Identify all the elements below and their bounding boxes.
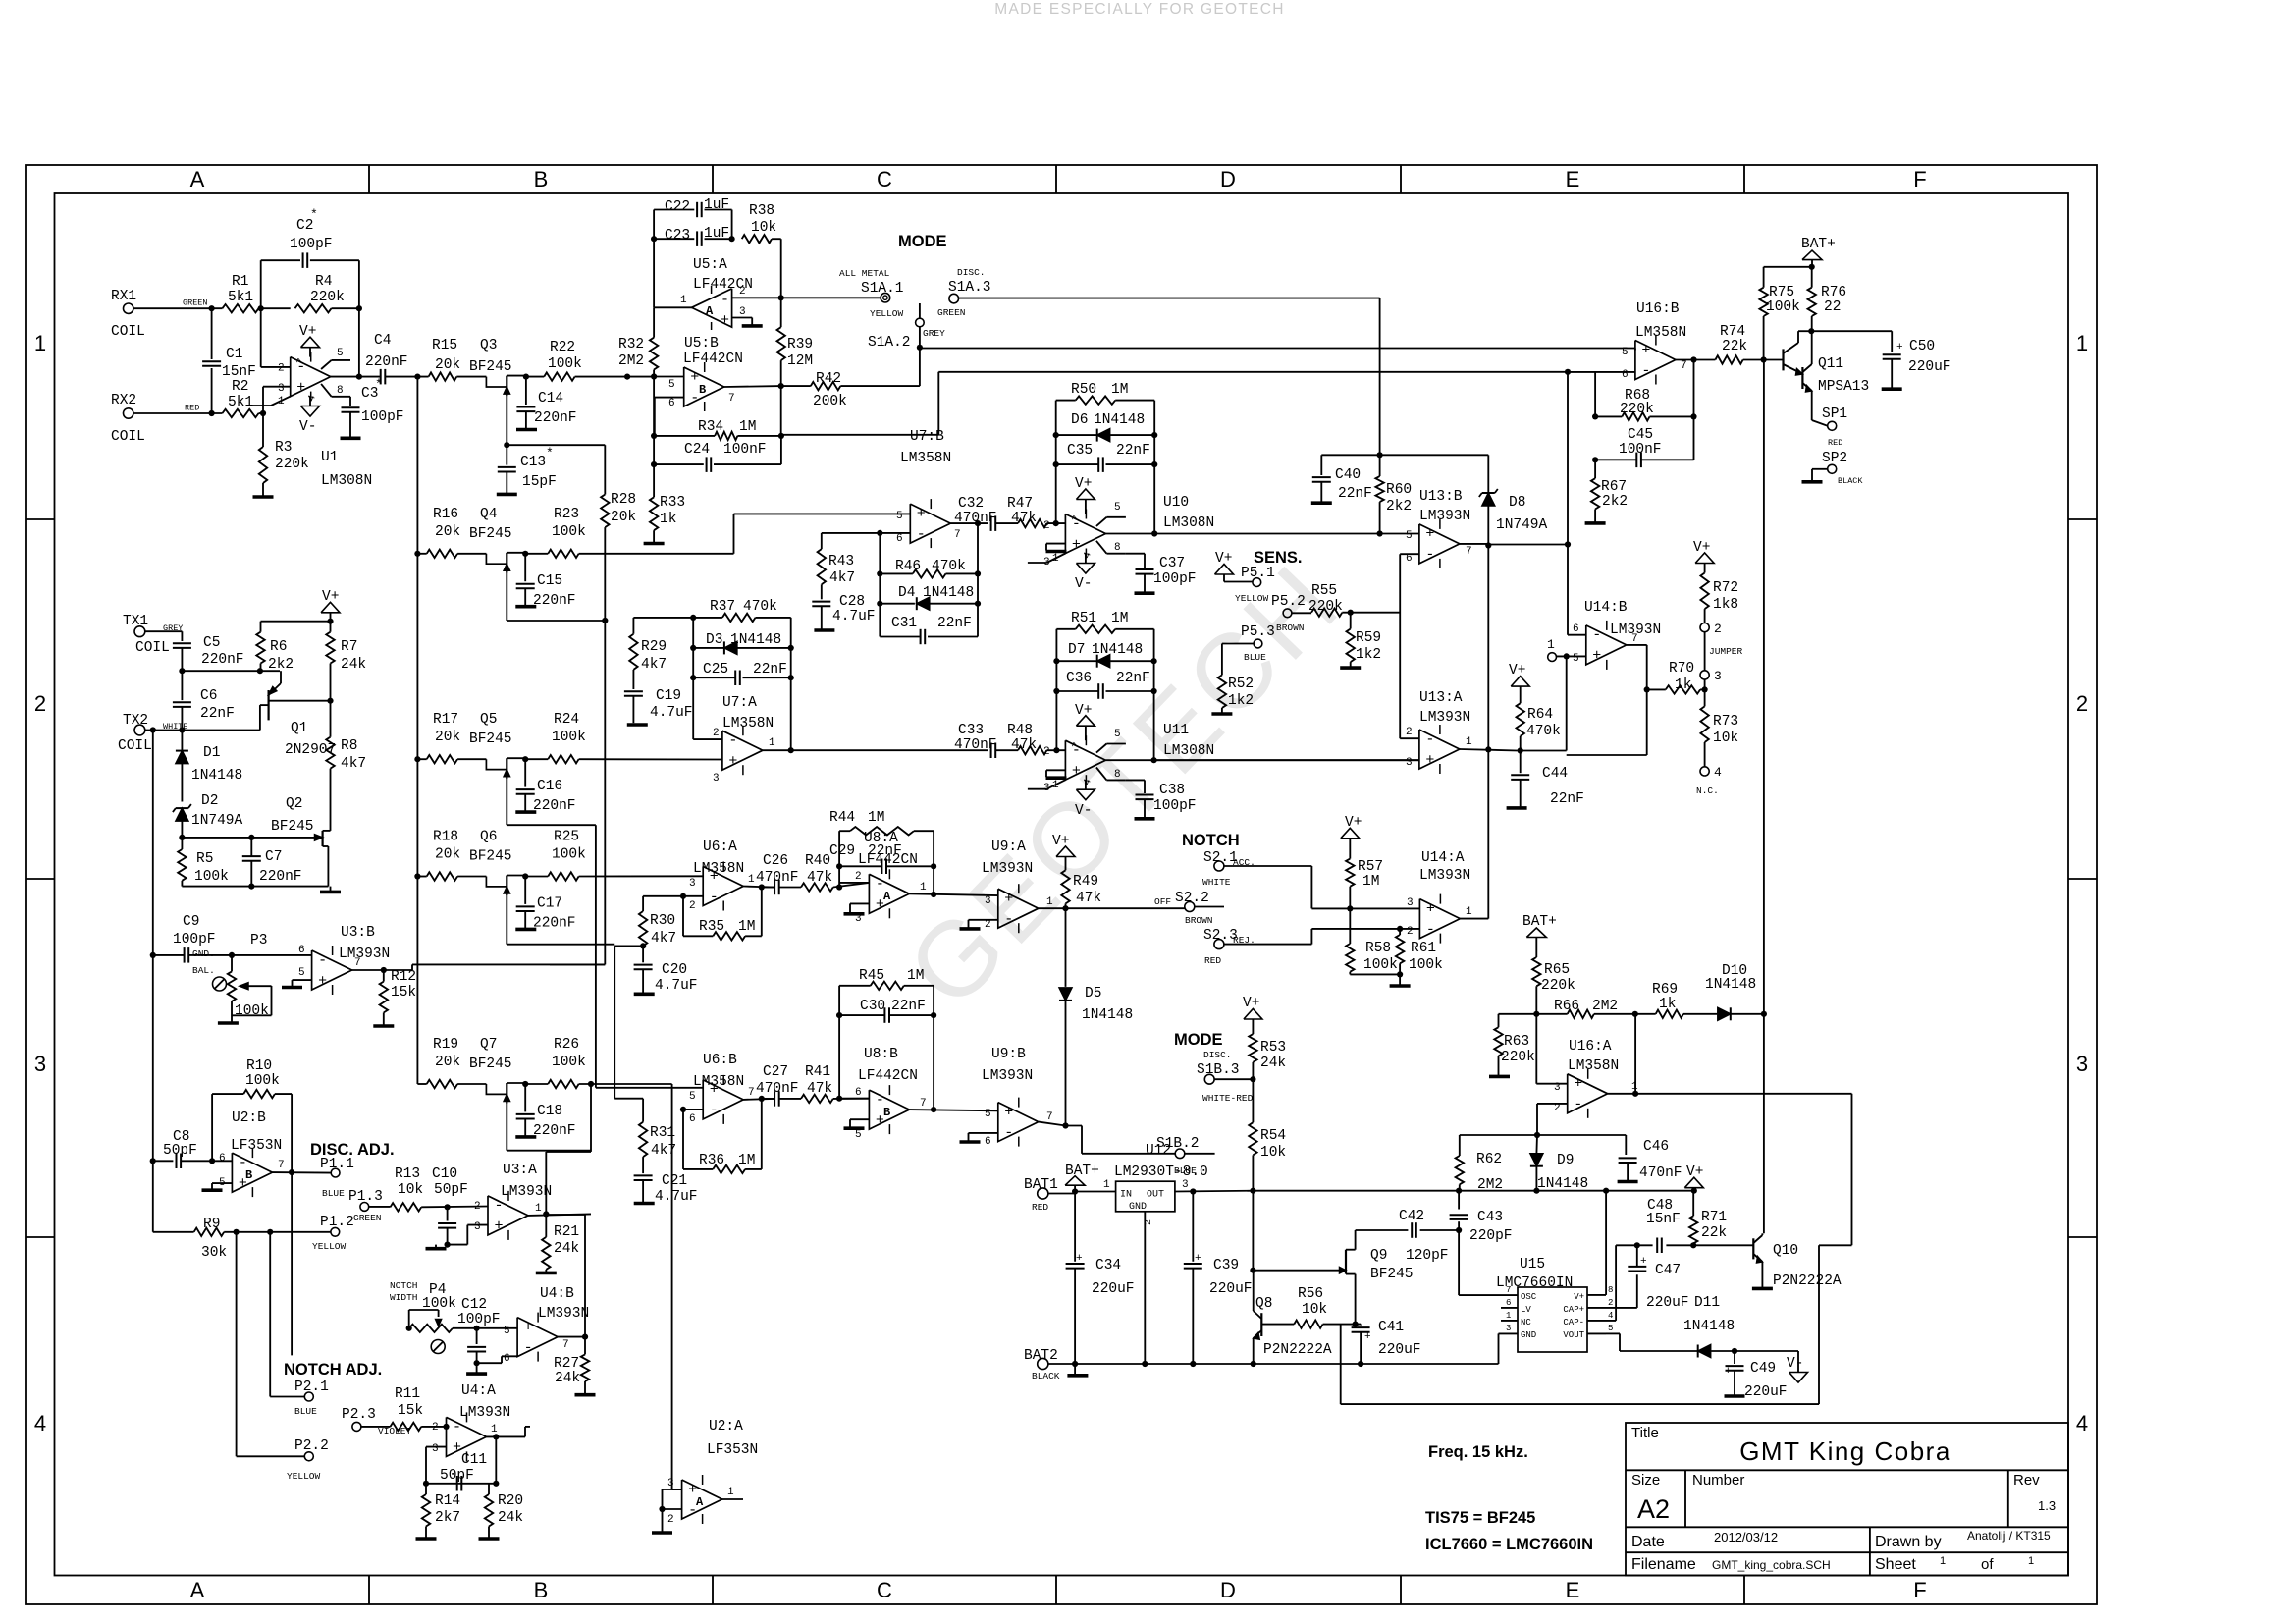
wire stage Q7 in <box>417 1083 426 1085</box>
pin7 U2:B out <box>272 1160 331 1173</box>
node C12 top <box>474 1326 480 1331</box>
wire R17 to gate <box>457 758 486 760</box>
svg-text:LV: LV <box>1521 1305 1531 1315</box>
switch S1B.2 <box>1156 1136 1200 1176</box>
svg-text:DISC.: DISC. <box>1203 1050 1232 1060</box>
svg-text:B: B <box>534 1578 549 1602</box>
node R74 R75 <box>1761 356 1767 362</box>
pin1 U16:A out <box>1608 1081 1638 1094</box>
pin3 U6:A <box>579 876 704 890</box>
pin2 U7:A <box>693 728 722 739</box>
node top rail R60 <box>1377 452 1383 458</box>
svg-text:V+: V+ <box>1075 476 1092 492</box>
regulator U12 <box>1116 1181 1175 1213</box>
wire pin3 row U14A <box>1311 907 1419 909</box>
pin1 U5:A <box>654 295 693 307</box>
svg-text:1N4148: 1N4148 <box>1537 1176 1588 1192</box>
node U4B out <box>582 1334 588 1340</box>
wire TX2 down rail <box>152 731 154 955</box>
svg-text:47k: 47k <box>1011 737 1037 753</box>
pin2 U4:A <box>432 1422 447 1434</box>
node U11 pin2 <box>1053 747 1059 753</box>
wire R22 to U5 rail <box>575 376 655 378</box>
node U2B out <box>289 1169 294 1175</box>
svg-text:C49: C49 <box>1750 1361 1776 1377</box>
svg-text:R25: R25 <box>554 830 579 845</box>
svg-text:U4:A: U4:A <box>461 1383 496 1399</box>
svg-text:100k: 100k <box>1363 957 1398 973</box>
svg-text:7: 7 <box>954 529 961 541</box>
node C24 left <box>651 461 657 467</box>
wire R25 right <box>0 0 1 1</box>
pin6 U6:B <box>683 1110 703 1125</box>
svg-text:C42: C42 <box>1399 1209 1424 1224</box>
svg-text:R20: R20 <box>498 1493 523 1509</box>
svg-text:2k2: 2k2 <box>1386 499 1412 514</box>
svg-text:YELLOW: YELLOW <box>1235 593 1269 604</box>
wire U4B tie <box>546 1214 585 1216</box>
wire P4 to C12 <box>453 1327 517 1329</box>
transistor Q11 <box>1784 331 1870 420</box>
svg-text:C21: C21 <box>662 1173 687 1189</box>
pin7 U9:B out <box>1039 1111 1175 1154</box>
svg-text:2M2: 2M2 <box>1477 1177 1503 1193</box>
svg-text:2: 2 <box>1407 926 1414 938</box>
ground C21 <box>634 1202 655 1206</box>
svg-text:R60: R60 <box>1386 482 1412 498</box>
svg-text:470nF: 470nF <box>954 737 997 753</box>
svg-text:100k: 100k <box>1766 299 1800 315</box>
svg-text:P1.1: P1.1 <box>320 1157 354 1172</box>
node C9 left <box>150 952 156 958</box>
svg-text:5: 5 <box>1114 502 1121 514</box>
power V+ R57 <box>1341 815 1362 859</box>
resistor R76 <box>1808 267 1847 316</box>
node R41 out <box>836 1096 842 1102</box>
node C41 bot <box>1358 1361 1363 1367</box>
wire U13A out row <box>1518 750 1567 752</box>
svg-text:R10: R10 <box>246 1058 272 1074</box>
ground R33 <box>644 542 665 546</box>
resistor R7 <box>326 622 366 701</box>
svg-text:+: + <box>1425 752 1434 769</box>
wire R50 right rail <box>1153 401 1155 534</box>
capacitor C42 <box>1356 1209 1460 1238</box>
svg-text:1: 1 <box>2076 331 2088 355</box>
svg-text:-: - <box>728 732 737 749</box>
op-amp U13:B <box>1419 519 1460 568</box>
svg-text:+: + <box>1364 1331 1371 1343</box>
capacitor C18 <box>516 1084 576 1139</box>
svg-text:C27: C27 <box>763 1064 788 1080</box>
pin1 stub U1 <box>252 396 291 407</box>
svg-text:R61: R61 <box>1411 941 1436 956</box>
pin6 U9:B gnd <box>960 1133 998 1148</box>
svg-text:R17: R17 <box>433 712 458 728</box>
label U4:B <box>538 1286 589 1322</box>
svg-text:LM393N: LM393N <box>459 1405 510 1421</box>
pin3 U2:A <box>663 1478 682 1509</box>
svg-text:15k: 15k <box>398 1403 423 1419</box>
svg-text:BAT2: BAT2 <box>1024 1348 1058 1364</box>
wire Q4 source to rail <box>507 620 605 622</box>
node U16A out <box>1632 1091 1638 1097</box>
connector P5.1 <box>1224 566 1275 604</box>
svg-text:R1: R1 <box>232 274 248 290</box>
svg-text:R12: R12 <box>391 969 416 985</box>
svg-text:C30: C30 <box>860 999 885 1014</box>
pin6 U7:B <box>822 533 911 545</box>
pin7 U3:B out <box>352 957 412 970</box>
resistor R16 <box>427 507 460 558</box>
svg-text:470nF: 470nF <box>954 511 997 526</box>
label U3:B <box>339 925 390 962</box>
svg-text:Size: Size <box>1631 1472 1660 1489</box>
ground SP2 <box>1802 480 1823 484</box>
svg-text:RED: RED <box>1204 955 1221 966</box>
capacitor C24 <box>654 436 781 472</box>
resistor R61 <box>1396 929 1443 985</box>
wire stage Q5 in <box>417 758 426 760</box>
capacitor C23 <box>654 226 732 246</box>
node U8B out <box>931 1107 936 1112</box>
svg-text:22nF: 22nF <box>1338 486 1372 502</box>
svg-text:YELLOW: YELLOW <box>870 308 904 319</box>
svg-text:20k: 20k <box>435 847 460 863</box>
svg-text:U13:A: U13:A <box>1419 690 1463 706</box>
resistor R14 <box>422 1484 460 1538</box>
node C36 left <box>1053 688 1059 694</box>
svg-text:R28: R28 <box>611 492 636 508</box>
svg-text:R53: R53 <box>1260 1040 1286 1056</box>
svg-text:C38: C38 <box>1159 783 1185 798</box>
svg-text:2: 2 <box>739 286 746 298</box>
wire top rail C40 <box>1321 454 1488 456</box>
svg-text:100k: 100k <box>235 1003 269 1019</box>
label U8:A <box>858 831 918 868</box>
svg-text:BROWN: BROWN <box>1276 623 1305 633</box>
svg-text:U7:B: U7:B <box>910 429 944 445</box>
power V+ U10 <box>1075 476 1095 514</box>
svg-text:4k7: 4k7 <box>341 756 366 772</box>
svg-text:-: - <box>1574 1097 1582 1113</box>
pin5 stub U11 <box>1096 729 1126 753</box>
node R9 right <box>267 1229 273 1235</box>
svg-text:NOTCH ADJ.: NOTCH ADJ. <box>284 1361 382 1379</box>
pin5 U2:B gnd <box>202 1177 233 1190</box>
resistor R74 <box>1715 324 1783 364</box>
svg-text:GMT King Cobra: GMT King Cobra <box>1739 1436 1951 1466</box>
wire Q11 base rail <box>1763 360 1765 1234</box>
svg-text:470nF: 470nF <box>756 1081 799 1097</box>
resistor R15 <box>429 338 461 381</box>
svg-text:C17: C17 <box>537 896 562 912</box>
wire fb row U16A <box>1460 1134 1627 1136</box>
pin labels U1 57 <box>295 357 318 403</box>
svg-text:470k: 470k <box>932 559 966 574</box>
op-amp U7:A <box>722 726 763 775</box>
label U6:B <box>693 1053 744 1090</box>
pin3 U7:A <box>713 773 720 785</box>
connector TX1 <box>123 614 183 656</box>
svg-text:R21: R21 <box>554 1224 579 1240</box>
ground C12 <box>466 1363 487 1374</box>
ground C37 <box>1135 591 1155 595</box>
label C9 <box>173 914 216 947</box>
wire S1A3 run <box>959 298 1380 455</box>
svg-text:GREY: GREY <box>923 328 945 339</box>
node U5B out <box>778 383 784 389</box>
op-amp U14:A <box>1419 894 1460 944</box>
svg-text:7: 7 <box>728 393 735 405</box>
node U8A out <box>931 892 936 897</box>
node U10 out rail <box>1151 530 1157 536</box>
pin6 U3:B <box>298 945 305 956</box>
capacitor C50 <box>1811 331 1950 388</box>
resistor R20 <box>485 1484 523 1538</box>
svg-text:BLUE: BLUE <box>294 1406 317 1417</box>
zener D2 <box>173 793 243 838</box>
svg-text:V+: V+ <box>1075 703 1092 719</box>
svg-text:R64: R64 <box>1527 707 1553 723</box>
svg-text:COIL: COIL <box>135 640 170 656</box>
svg-text:10k: 10k <box>1713 731 1738 746</box>
svg-text:100k: 100k <box>1409 957 1443 973</box>
ground C18 <box>515 1135 536 1139</box>
pin7 pin4 U11 <box>1071 741 1094 786</box>
svg-text:22nF: 22nF <box>1116 671 1150 686</box>
svg-text:1N4148: 1N4148 <box>1082 1007 1133 1023</box>
svg-text:C9: C9 <box>183 914 199 930</box>
pin1 U8:A out <box>909 882 997 895</box>
wire R38 right <box>772 239 781 298</box>
capacitor C16 <box>516 759 576 814</box>
svg-text:2M2: 2M2 <box>1592 999 1618 1014</box>
svg-text:C10: C10 <box>432 1166 457 1182</box>
svg-text:WHITE: WHITE <box>1202 877 1231 888</box>
pin7 U7:B out <box>950 523 988 541</box>
svg-text:220k: 220k <box>1620 402 1654 417</box>
svg-text:R73: R73 <box>1713 714 1738 730</box>
svg-text:2k7: 2k7 <box>435 1510 460 1526</box>
svg-text:+: + <box>1426 900 1435 917</box>
resistor R59 <box>1347 613 1382 668</box>
svg-text:C1: C1 <box>226 347 242 362</box>
node q9 src <box>1353 1322 1359 1327</box>
node R38 left <box>729 236 735 242</box>
connector P1.2 <box>312 1215 354 1252</box>
svg-text:1: 1 <box>34 331 46 355</box>
op-amp U7:B <box>910 499 950 548</box>
svg-text:U3:A: U3:A <box>503 1163 537 1178</box>
wire U1 out <box>330 376 381 378</box>
diode D4 <box>880 585 978 610</box>
svg-text:6: 6 <box>1406 553 1413 565</box>
pin2 U5:A wire <box>732 286 781 298</box>
svg-text:-: - <box>1004 911 1013 928</box>
pin1 U7:A out <box>763 737 988 750</box>
wire U10 out <box>1105 533 1379 535</box>
svg-text:LM2930T-8.0: LM2930T-8.0 <box>1114 1164 1208 1180</box>
svg-text:U16:A: U16:A <box>1569 1039 1612 1055</box>
wire left rail in <box>414 377 420 1084</box>
svg-text:CAP+: CAP+ <box>1563 1305 1584 1315</box>
svg-text:20k: 20k <box>435 1055 460 1070</box>
svg-text:100pF: 100pF <box>173 932 216 947</box>
svg-text:2: 2 <box>1043 520 1050 532</box>
pin5 U3:B gnd <box>282 967 312 988</box>
svg-text:47k: 47k <box>1011 511 1037 526</box>
node D7 right <box>1151 658 1157 664</box>
svg-text:+: + <box>690 369 699 386</box>
svg-text:C41: C41 <box>1378 1320 1404 1335</box>
svg-text:3: 3 <box>1506 1324 1511 1333</box>
power V+ R49 <box>1052 834 1075 870</box>
node R61 top <box>1397 926 1403 932</box>
svg-text:R9: R9 <box>203 1217 220 1232</box>
svg-text:SP2: SP2 <box>1822 451 1847 466</box>
svg-text:7: 7 <box>1466 546 1472 558</box>
svg-text:C7: C7 <box>265 849 282 865</box>
node R37 left <box>690 615 696 621</box>
svg-text:3: 3 <box>432 1443 439 1455</box>
ground R52 <box>1211 712 1232 716</box>
svg-text:220uF: 220uF <box>1092 1281 1135 1297</box>
node TX2 a <box>150 727 156 732</box>
svg-text:C32: C32 <box>958 496 984 512</box>
svg-text:R42: R42 <box>816 371 841 387</box>
svg-text:C5: C5 <box>203 635 220 651</box>
svg-text:8: 8 <box>1608 1285 1613 1295</box>
svg-text:220uF: 220uF <box>1209 1281 1253 1297</box>
wire C5 to R6 <box>182 670 280 672</box>
node C23 left <box>651 236 657 242</box>
wire Q3 source <box>506 396 507 446</box>
svg-text:S2.2: S2.2 <box>1175 891 1209 906</box>
wire R75 bot <box>1763 316 1765 360</box>
node U7A out <box>788 747 794 753</box>
svg-text:R2: R2 <box>232 379 248 395</box>
svg-text:LF353N: LF353N <box>231 1138 282 1154</box>
svg-text:20k: 20k <box>435 730 460 745</box>
node C10 bot <box>445 1242 451 1248</box>
node R13 C10 <box>445 1204 451 1210</box>
ground BAT2 <box>1067 1364 1088 1376</box>
node vplus R7 <box>327 619 333 624</box>
svg-text:R23: R23 <box>554 507 579 522</box>
svg-text:R15: R15 <box>432 338 457 353</box>
svg-text:3: 3 <box>474 1221 481 1233</box>
svg-text:1: 1 <box>727 1487 734 1498</box>
svg-text:1: 1 <box>278 396 285 407</box>
capacitor C41 <box>1352 1320 1421 1364</box>
ground C46 <box>1618 1180 1638 1184</box>
svg-text:50pF: 50pF <box>434 1182 468 1198</box>
svg-text:Number: Number <box>1692 1472 1744 1489</box>
svg-text:+: + <box>1641 342 1650 358</box>
svg-text:BAT+: BAT+ <box>1522 914 1557 930</box>
resistor R41 <box>801 1064 869 1103</box>
svg-text:WIDTH: WIDTH <box>390 1292 418 1303</box>
svg-text:F: F <box>1913 167 1926 191</box>
resistor R37 <box>693 599 791 622</box>
wire R16 to gate <box>457 553 486 555</box>
top banner text <box>994 1 1285 18</box>
op-amp U5:A <box>692 286 732 330</box>
svg-text:YELLOW: YELLOW <box>312 1241 347 1252</box>
svg-text:GREEN: GREEN <box>353 1213 382 1223</box>
svg-text:S1A.1: S1A.1 <box>861 281 904 297</box>
svg-text:C28: C28 <box>839 594 865 610</box>
resistor R48 <box>996 723 1066 754</box>
node pin2 R38 <box>778 295 784 300</box>
node C7 bot <box>248 884 254 890</box>
svg-text:RED: RED <box>1032 1202 1048 1213</box>
node C36 right <box>1151 688 1157 694</box>
svg-text:RED: RED <box>185 404 199 413</box>
op-amp U6:B <box>703 1075 743 1124</box>
svg-text:A: A <box>883 890 891 903</box>
pin5 U4:B <box>504 1326 510 1337</box>
svg-text:1k2: 1k2 <box>1228 693 1254 709</box>
svg-text:WHITE-RED: WHITE-RED <box>1202 1093 1254 1104</box>
op-amp U9:B <box>998 1098 1039 1147</box>
svg-text:C44: C44 <box>1542 766 1568 782</box>
svg-text:V+: V+ <box>1345 815 1362 831</box>
svg-text:V+: V+ <box>1574 1292 1584 1302</box>
svg-text:R5: R5 <box>196 851 213 867</box>
svg-text:Anatolij / KT315: Anatolij / KT315 <box>1967 1529 2051 1543</box>
node Q1 collector <box>327 698 333 704</box>
svg-text:6: 6 <box>219 1153 226 1164</box>
svg-text:220nF: 220nF <box>365 354 408 370</box>
svg-text:D8: D8 <box>1509 495 1525 511</box>
pin6 U2:B <box>219 1153 226 1164</box>
pin6 U4:B <box>504 1353 510 1365</box>
svg-text:R56: R56 <box>1298 1286 1323 1302</box>
node U2A pin2 <box>659 1506 665 1512</box>
node C25 left <box>690 675 696 680</box>
svg-text:MODE: MODE <box>1174 1031 1223 1049</box>
svg-text:15nF: 15nF <box>222 364 256 380</box>
svg-text:7: 7 <box>1046 1111 1053 1123</box>
svg-text:1M: 1M <box>868 810 884 826</box>
svg-text:B: B <box>883 1106 890 1119</box>
node R60 bot <box>1377 530 1383 536</box>
node V+ row a <box>1250 1188 1255 1194</box>
node D2 bot <box>179 835 185 840</box>
svg-text:4: 4 <box>2076 1411 2088 1435</box>
svg-text:1N4148: 1N4148 <box>730 632 781 648</box>
wire RX1 to node <box>133 307 223 309</box>
ground R12 <box>373 1024 394 1028</box>
wire R23 right <box>579 514 911 553</box>
svg-text:V-: V- <box>1075 803 1092 819</box>
svg-text:A: A <box>706 304 714 318</box>
wire U7A left rail <box>692 618 694 739</box>
wire BAT2 row <box>1048 1363 1499 1365</box>
svg-text:1: 1 <box>1466 736 1472 748</box>
svg-text:DISC.: DISC. <box>957 267 986 278</box>
svg-text:24k: 24k <box>341 657 366 673</box>
node R64 bot <box>1518 747 1523 753</box>
svg-text:22nF: 22nF <box>200 706 235 722</box>
svg-text:100k: 100k <box>552 730 586 745</box>
svg-text:470k: 470k <box>1526 724 1561 739</box>
ground C38 <box>1135 817 1155 821</box>
svg-text:+: + <box>1574 1076 1582 1093</box>
svg-text:1k8: 1k8 <box>1713 597 1738 613</box>
